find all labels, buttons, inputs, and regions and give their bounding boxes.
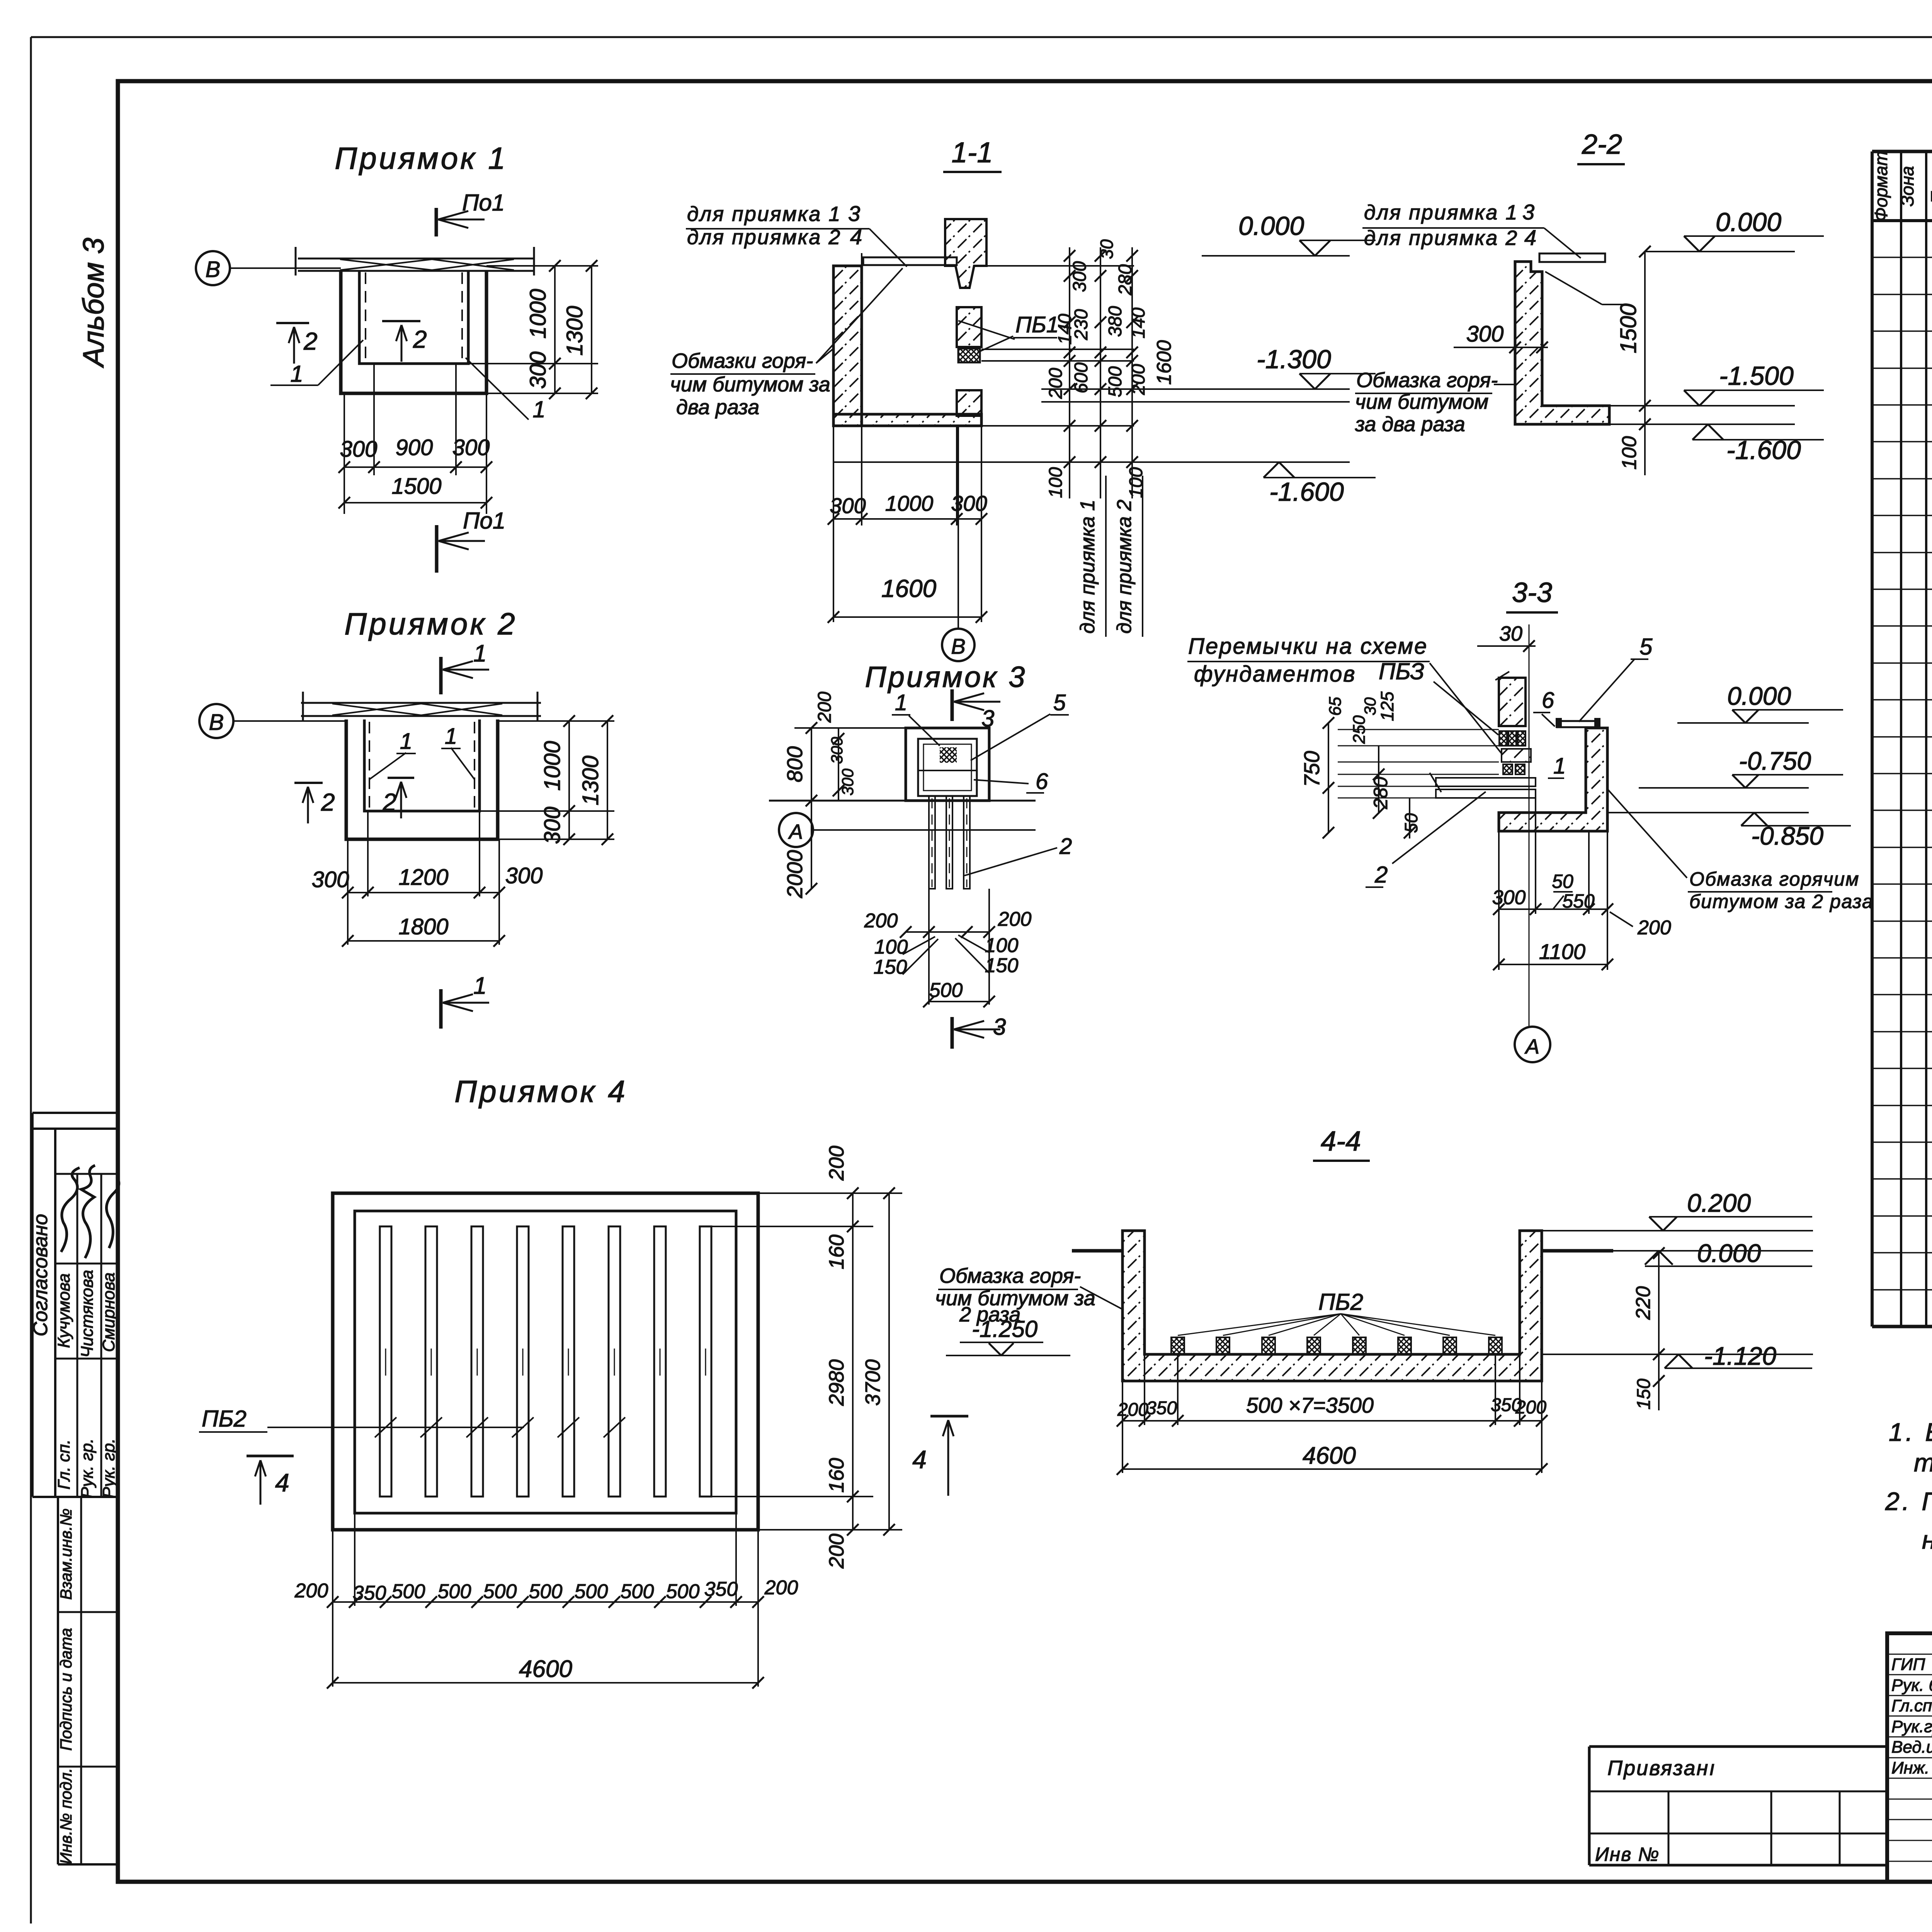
svg-text:200: 200 bbox=[864, 910, 898, 932]
svg-text:200: 200 bbox=[1046, 368, 1066, 399]
title block signature area bbox=[1887, 1633, 1932, 1882]
signature squiggle 3 bbox=[107, 1177, 119, 1248]
plan view Priyamok 3 bbox=[769, 661, 1072, 1049]
svg-text:1300: 1300 bbox=[562, 306, 587, 355]
svg-text:Подпись и дата: Подпись и дата bbox=[57, 1628, 75, 1751]
svg-text:1100: 1100 bbox=[1539, 939, 1585, 964]
signature squiggle 2 bbox=[81, 1165, 95, 1258]
svg-text:65: 65 bbox=[1326, 697, 1345, 716]
svg-text:100: 100 bbox=[1618, 436, 1641, 470]
svg-text:350: 350 bbox=[353, 1582, 386, 1604]
svg-text:750: 750 bbox=[1299, 751, 1324, 787]
svg-text:1. Балки ПБ2 укладывать на: 1. Балки ПБ2 укладывать на цементном рас… bbox=[1889, 1418, 1932, 1446]
svg-text:3: 3 bbox=[993, 1014, 1006, 1040]
section view 3-3 bbox=[1187, 577, 1874, 1062]
svg-text:В: В bbox=[951, 634, 965, 658]
svg-text:300: 300 bbox=[951, 491, 987, 515]
svg-text:200: 200 bbox=[998, 908, 1032, 930]
svg-text:2: 2 bbox=[1374, 862, 1388, 888]
svg-text:30: 30 bbox=[1097, 239, 1117, 259]
svg-text:Рук. бр.: Рук. бр. bbox=[1891, 1676, 1932, 1695]
svg-text:Вед.инж.: Вед.инж. bbox=[1891, 1738, 1932, 1757]
label Podpis i data bbox=[57, 1628, 75, 1751]
svg-text:200: 200 bbox=[1637, 917, 1671, 939]
plan view Priyamok 2 bbox=[199, 607, 614, 1029]
svg-text:500: 500 bbox=[1105, 366, 1126, 397]
svg-text:280: 280 bbox=[1370, 777, 1391, 810]
plan view Priyamok 1 bbox=[196, 141, 598, 573]
svg-text:ГИП: ГИП bbox=[1891, 1655, 1925, 1674]
stamp role Gl sp bbox=[54, 1439, 73, 1490]
svg-text:200: 200 bbox=[764, 1577, 798, 1599]
svg-text:Формат: Формат bbox=[1871, 151, 1891, 222]
svg-text:30: 30 bbox=[1499, 622, 1522, 645]
svg-text:160: 160 bbox=[825, 1458, 848, 1493]
svg-text:1: 1 bbox=[400, 729, 412, 754]
svg-text:0.000: 0.000 bbox=[1727, 682, 1791, 710]
stamp role Ruk gr 2 bbox=[99, 1439, 118, 1498]
svg-text:3: 3 bbox=[1522, 200, 1534, 224]
svg-text:300: 300 bbox=[505, 863, 543, 888]
svg-text:Инв №: Инв № bbox=[1595, 1844, 1660, 1865]
svg-text:2980: 2980 bbox=[825, 1359, 848, 1406]
svg-text:300: 300 bbox=[828, 736, 846, 764]
svg-text:ПБ2: ПБ2 bbox=[1318, 1289, 1363, 1315]
svg-text:-1.600: -1.600 bbox=[1269, 477, 1344, 507]
svg-text:6: 6 bbox=[1542, 688, 1554, 713]
notes text bbox=[1885, 1418, 1932, 1554]
svg-text:250: 250 bbox=[1350, 715, 1369, 744]
svg-text:Согласовано: Согласовано bbox=[29, 1214, 52, 1336]
svg-text:350: 350 bbox=[704, 1578, 738, 1600]
svg-text:200: 200 bbox=[294, 1580, 328, 1602]
svg-text:300: 300 bbox=[830, 493, 866, 518]
svg-text:Зона: Зона bbox=[1897, 166, 1917, 207]
svg-text:для приямка 2: для приямка 2 bbox=[687, 226, 841, 249]
svg-text:1: 1 bbox=[473, 973, 486, 999]
svg-text:фундаментов: фундаментов bbox=[1194, 662, 1356, 687]
svg-text:Обмазки горя-: Обмазки горя- bbox=[672, 349, 813, 372]
label Album 3 bbox=[77, 238, 110, 368]
svg-text:550: 550 bbox=[1562, 890, 1595, 912]
svg-text:для приямка 1: для приямка 1 bbox=[687, 202, 841, 226]
svg-text:4: 4 bbox=[275, 1468, 289, 1497]
svg-text:1: 1 bbox=[1553, 753, 1566, 779]
svg-text:Альбом 3: Альбом 3 bbox=[77, 238, 110, 368]
svg-text:Обмазка горя-: Обмазка горя- bbox=[1356, 369, 1498, 392]
svg-text:2: 2 bbox=[382, 788, 396, 816]
svg-text:2. Перемычки ПБ1... ПБЗ вклю: 2. Перемычки ПБ1... ПБЗ включены в специ… bbox=[1885, 1487, 1932, 1515]
svg-text:два раза: два раза bbox=[676, 396, 759, 419]
svg-text:500: 500 bbox=[483, 1580, 517, 1603]
svg-text:Обмазка горя-: Обмазка горя- bbox=[939, 1264, 1081, 1287]
svg-text:0.200: 0.200 bbox=[1687, 1189, 1751, 1217]
svg-text:30: 30 bbox=[1361, 697, 1379, 715]
section view 2-2 bbox=[1355, 129, 1824, 475]
spec table grid and header bbox=[1871, 91, 1932, 1327]
svg-text:500: 500 bbox=[392, 1580, 425, 1603]
svg-text:300: 300 bbox=[452, 435, 490, 460]
svg-text:Перемычки на схеме: Перемычки на схеме bbox=[1188, 634, 1428, 659]
svg-text:Рук.гр.: Рук.гр. bbox=[1891, 1717, 1932, 1736]
svg-text:3-3: 3-3 bbox=[1512, 577, 1552, 608]
svg-text:Смирнова: Смирнова bbox=[99, 1272, 118, 1352]
svg-text:350: 350 bbox=[1146, 1398, 1177, 1418]
svg-text:500: 500 bbox=[438, 1580, 471, 1603]
svg-text:Привязанı: Привязанı bbox=[1607, 1757, 1716, 1780]
label Soglasovano bbox=[29, 1214, 52, 1336]
svg-text:900: 900 bbox=[396, 435, 433, 460]
stamp name Smirnova bbox=[99, 1272, 118, 1352]
svg-text:500 ×7=3500: 500 ×7=3500 bbox=[1246, 1393, 1374, 1417]
svg-text:5: 5 bbox=[1639, 634, 1653, 660]
svg-text:Приямок 2: Приямок 2 bbox=[344, 607, 517, 641]
svg-text:1500: 1500 bbox=[391, 474, 441, 499]
svg-text:100: 100 bbox=[1126, 467, 1146, 498]
svg-text:ПБ1: ПБ1 bbox=[1015, 312, 1059, 337]
svg-text:140: 140 bbox=[1128, 308, 1149, 338]
stamp name Kuchumova bbox=[54, 1273, 73, 1348]
svg-text:толщиной 10 мм, марки 100.: толщиной 10 мм, марки 100. bbox=[1914, 1448, 1932, 1477]
svg-text:150: 150 bbox=[1634, 1379, 1654, 1410]
svg-text:1: 1 bbox=[445, 724, 457, 749]
svg-text:2-2: 2-2 bbox=[1582, 129, 1622, 160]
svg-text:800: 800 bbox=[782, 746, 807, 782]
svg-text:0.000: 0.000 bbox=[1238, 211, 1304, 241]
svg-text:-1.600: -1.600 bbox=[1726, 435, 1801, 465]
svg-text:5: 5 bbox=[1053, 690, 1066, 715]
svg-text:для приямка 2: для приямка 2 bbox=[1113, 500, 1136, 634]
svg-text:1000: 1000 bbox=[885, 491, 934, 515]
svg-text:300: 300 bbox=[1070, 261, 1090, 292]
section view 1-1 bbox=[670, 136, 1376, 661]
svg-text:280: 280 bbox=[1115, 264, 1136, 296]
svg-text:1300: 1300 bbox=[578, 755, 603, 805]
svg-text:100: 100 bbox=[1046, 467, 1066, 498]
plan view Priyamok 4 bbox=[199, 1074, 902, 1689]
svg-text:300: 300 bbox=[312, 867, 349, 892]
svg-text:500: 500 bbox=[575, 1580, 608, 1603]
svg-text:220: 220 bbox=[1632, 1286, 1655, 1320]
svg-text:для приямка 1: для приямка 1 bbox=[1364, 201, 1518, 224]
svg-text:По1: По1 bbox=[462, 190, 505, 216]
svg-text:для приямка 2: для приямка 2 bbox=[1364, 226, 1518, 250]
section view 4-4 bbox=[912, 1126, 1813, 1496]
svg-text:500: 500 bbox=[529, 1580, 563, 1603]
svg-text:160: 160 bbox=[825, 1235, 848, 1269]
svg-text:500: 500 bbox=[666, 1580, 700, 1603]
svg-text:Инв.№ подл.: Инв.№ подл. bbox=[57, 1768, 75, 1864]
svg-text:1: 1 bbox=[895, 690, 907, 715]
svg-text:100: 100 bbox=[874, 936, 908, 958]
stamp name Chistyakova bbox=[78, 1270, 97, 1357]
svg-text:ПБЗ: ПБЗ bbox=[1379, 658, 1424, 684]
svg-text:битумом за 2 раза: битумом за 2 раза bbox=[1689, 891, 1874, 912]
svg-text:1: 1 bbox=[290, 361, 303, 387]
signature squiggle 1 bbox=[61, 1168, 80, 1252]
svg-text:Приямок 1: Приямок 1 bbox=[335, 141, 508, 175]
svg-text:300: 300 bbox=[1492, 886, 1526, 909]
svg-text:-1.300: -1.300 bbox=[1257, 345, 1331, 374]
svg-text:А: А bbox=[788, 820, 803, 844]
svg-text:380: 380 bbox=[1105, 306, 1126, 337]
svg-text:300: 300 bbox=[526, 352, 551, 389]
svg-text:ПБ2: ПБ2 bbox=[202, 1406, 247, 1432]
svg-text:В: В bbox=[209, 710, 224, 735]
svg-text:4: 4 bbox=[850, 224, 862, 249]
svg-text:50: 50 bbox=[1401, 813, 1421, 833]
svg-text:200: 200 bbox=[825, 1534, 848, 1569]
svg-text:1000: 1000 bbox=[526, 289, 551, 338]
svg-text:1000: 1000 bbox=[540, 741, 565, 791]
svg-text:0.000: 0.000 bbox=[1697, 1239, 1761, 1267]
svg-text:1600: 1600 bbox=[881, 575, 937, 602]
svg-text:на листе 8.: на листе 8. bbox=[1922, 1526, 1932, 1554]
svg-text:за два раза: за два раза bbox=[1355, 413, 1465, 436]
svg-text:600: 600 bbox=[1071, 362, 1092, 393]
label Vzam inv bbox=[57, 1509, 75, 1600]
svg-text:3: 3 bbox=[848, 201, 860, 226]
svg-text:-0.850: -0.850 bbox=[1751, 821, 1823, 850]
svg-text:Рук. гр.: Рук. гр. bbox=[78, 1439, 97, 1498]
svg-text:По1: По1 bbox=[463, 508, 505, 534]
svg-text:Приямок 4: Приямок 4 bbox=[454, 1074, 628, 1109]
label Inv n podl bbox=[57, 1768, 75, 1864]
svg-text:2: 2 bbox=[303, 327, 318, 355]
svg-text:0.000: 0.000 bbox=[1716, 207, 1781, 237]
svg-text:В: В bbox=[206, 257, 221, 282]
svg-text:А: А bbox=[1524, 1035, 1539, 1058]
svg-text:2: 2 bbox=[413, 325, 427, 353]
svg-text:1200: 1200 bbox=[398, 865, 448, 890]
svg-text:1: 1 bbox=[532, 396, 545, 422]
svg-text:4: 4 bbox=[1524, 225, 1536, 250]
svg-text:4600: 4600 bbox=[519, 1656, 572, 1682]
left stamp grid soglasovano bbox=[32, 1113, 118, 1497]
svg-text:200: 200 bbox=[1117, 1400, 1148, 1420]
left stamp grid lower bbox=[58, 1497, 118, 1864]
svg-text:Приямок 3: Приямок 3 bbox=[865, 661, 1027, 694]
svg-text:6: 6 bbox=[1036, 769, 1048, 794]
svg-text:200: 200 bbox=[815, 692, 835, 723]
svg-text:Гл. сп.: Гл. сп. bbox=[54, 1439, 73, 1490]
svg-text:3700: 3700 bbox=[861, 1359, 884, 1406]
svg-text:500: 500 bbox=[621, 1580, 654, 1603]
svg-text:Кучумова: Кучумова bbox=[54, 1273, 73, 1348]
svg-text:230: 230 bbox=[1071, 309, 1092, 340]
svg-text:Взам.инв.№: Взам.инв.№ bbox=[57, 1509, 75, 1600]
svg-text:125: 125 bbox=[1377, 691, 1397, 721]
svg-text:чим битумом: чим битумом bbox=[1355, 390, 1488, 413]
svg-text:200: 200 bbox=[1128, 364, 1149, 395]
svg-text:-1.250: -1.250 bbox=[972, 1316, 1037, 1342]
svg-text:Гл.спец.: Гл.спец. bbox=[1891, 1696, 1932, 1715]
stamp role Ruk gr 1 bbox=[78, 1439, 97, 1498]
svg-text:4600: 4600 bbox=[1303, 1442, 1356, 1469]
svg-text:200: 200 bbox=[1515, 1397, 1546, 1418]
svg-text:50: 50 bbox=[1552, 871, 1573, 892]
svg-text:150: 150 bbox=[874, 956, 907, 978]
svg-text:500: 500 bbox=[929, 979, 963, 1002]
svg-text:4: 4 bbox=[912, 1445, 927, 1474]
svg-text:2: 2 bbox=[1059, 834, 1072, 859]
svg-text:-0.750: -0.750 bbox=[1739, 747, 1811, 775]
svg-text:1600: 1600 bbox=[1153, 340, 1175, 385]
svg-text:Обмазка горячим: Обмазка горячим bbox=[1689, 868, 1859, 890]
svg-text:-1.120: -1.120 bbox=[1704, 1342, 1776, 1370]
privyazan table bbox=[1589, 1747, 1887, 1865]
svg-text:1-1: 1-1 bbox=[952, 136, 993, 168]
svg-text:2000: 2000 bbox=[782, 850, 807, 899]
svg-text:300: 300 bbox=[1466, 321, 1504, 347]
svg-text:4-4: 4-4 bbox=[1321, 1126, 1361, 1157]
svg-text:2: 2 bbox=[321, 788, 335, 816]
svg-text:300: 300 bbox=[838, 768, 857, 796]
svg-text:Поз.: Поз. bbox=[1927, 168, 1932, 204]
svg-text:Чистякова: Чистякова bbox=[78, 1270, 97, 1357]
svg-text:300: 300 bbox=[540, 807, 565, 844]
svg-text:Инж.: Инж. bbox=[1891, 1759, 1929, 1777]
svg-text:для приямка 1: для приямка 1 bbox=[1077, 500, 1099, 634]
svg-text:-1.500: -1.500 bbox=[1719, 361, 1794, 391]
svg-text:200: 200 bbox=[825, 1146, 848, 1181]
svg-text:1800: 1800 bbox=[398, 914, 448, 939]
svg-text:1: 1 bbox=[473, 640, 486, 667]
svg-text:чим битумом за: чим битумом за bbox=[670, 373, 830, 396]
svg-text:Рук. гр.: Рук. гр. bbox=[99, 1439, 118, 1498]
svg-text:300: 300 bbox=[340, 437, 378, 462]
svg-text:1500: 1500 bbox=[1616, 303, 1641, 353]
